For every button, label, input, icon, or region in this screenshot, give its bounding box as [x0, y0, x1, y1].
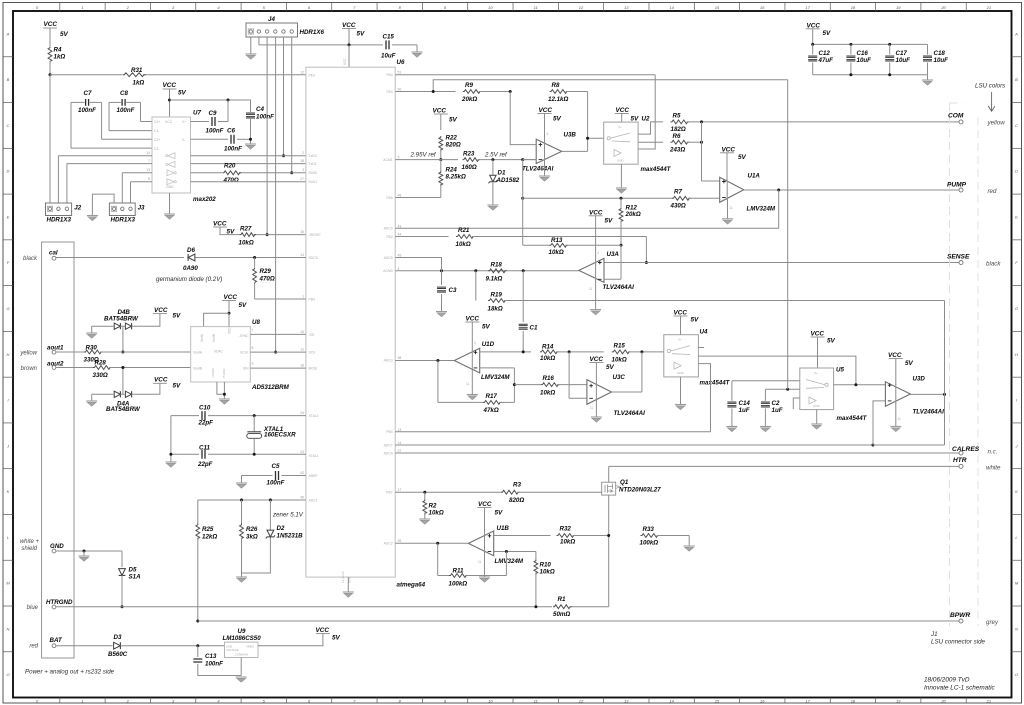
svg-text:U3A: U3A: [607, 251, 620, 258]
svg-text:51: 51: [398, 71, 402, 75]
svg-text:8: 8: [148, 177, 150, 181]
wire ADC1 row: [198, 499, 306, 501]
wire R8 feedback to U3B output: [566, 91, 588, 93]
svg-text:U1A: U1A: [748, 173, 761, 180]
wire PA0 row to U2 control: [395, 74, 655, 76]
wire U2 VCC riser: [621, 114, 623, 123]
svg-text:11: 11: [534, 698, 538, 703]
svg-text:820Ω: 820Ω: [509, 497, 524, 504]
svg-text:R25: R25: [202, 526, 214, 533]
wire D4B left to ground: [92, 325, 115, 327]
svg-text:10: 10: [488, 698, 493, 703]
wire ADC4 row to CALRES: [395, 452, 959, 454]
capacitor C4: [246, 113, 255, 118]
svg-text:D6: D6: [187, 247, 195, 254]
svg-text:C2+: C2+: [154, 138, 160, 142]
svg-text:13: 13: [146, 168, 150, 172]
svg-text:C2-: C2-: [154, 147, 159, 151]
svg-text:5V: 5V: [553, 116, 562, 123]
svg-text:red: red: [988, 188, 998, 195]
svg-text:12: 12: [300, 70, 304, 74]
power VCC U1B: [478, 507, 492, 509]
svg-text:G: G: [6, 306, 9, 311]
connector J2 HDR1X3: [46, 203, 72, 216]
svg-text:max4544T: max4544T: [700, 380, 731, 387]
wire U9 out to VCC: [258, 634, 323, 646]
svg-text:BAT54BRW: BAT54BRW: [104, 316, 139, 323]
wire VCC riser into U6 top: [348, 45, 350, 67]
capacitor C3: [441, 271, 443, 285]
wire U1B V- to ground: [484, 553, 486, 577]
capacitor C18: [927, 44, 929, 54]
wire R12 bottom to R13 row: [620, 221, 622, 246]
svg-text:VCC: VCC: [811, 331, 825, 338]
svg-text:10kΩ: 10kΩ: [540, 390, 555, 397]
svg-text:-SYNC: -SYNC: [239, 334, 250, 338]
wire Q1 source down to R1 row: [608, 495, 610, 607]
wire U8 SCLK to U6 SCK: [250, 351, 306, 353]
svg-text:VrefA: VrefA: [200, 333, 204, 342]
crystal XTAL1 160ECSXR: [253, 416, 255, 432]
resistor R21: [456, 235, 475, 239]
svg-text:R23: R23: [463, 151, 475, 158]
svg-text:11: 11: [300, 348, 304, 352]
svg-text:C: C: [7, 123, 10, 128]
svg-text:PA2: PA2: [387, 235, 393, 239]
svg-text:PB7: PB7: [386, 491, 393, 495]
svg-text:R10: R10: [540, 562, 552, 569]
svg-text:14: 14: [669, 5, 674, 10]
connector J1 dashed outline: [950, 103, 979, 626]
svg-text:R32: R32: [560, 526, 572, 533]
svg-text:19: 19: [896, 698, 901, 703]
power VCC U3B: [538, 113, 552, 115]
wire U1A V- to ground: [727, 199, 729, 219]
svg-text:ADC0: ADC0: [384, 227, 393, 231]
svg-text:11: 11: [898, 417, 902, 421]
svg-text:n.c.: n.c.: [988, 449, 998, 456]
capacitor C15: [386, 40, 389, 49]
resistor R13: [549, 243, 568, 247]
svg-text:HDR1X3: HDR1X3: [111, 217, 136, 224]
svg-text:R21: R21: [458, 227, 470, 234]
svg-text:P GND: P GND: [222, 368, 226, 378]
wire D4A left to ground: [92, 393, 115, 395]
wire R16 row to U3C plus: [514, 384, 541, 386]
svg-text:-SS: -SS: [309, 333, 315, 337]
svg-text:1uF: 1uF: [772, 407, 783, 414]
wire R13 row: [523, 244, 550, 246]
svg-text:10kΩ: 10kΩ: [540, 569, 555, 576]
svg-text:16: 16: [300, 364, 304, 368]
svg-text:100kΩ: 100kΩ: [640, 540, 659, 547]
svg-text:R29: R29: [260, 268, 272, 275]
svg-text:U3C: U3C: [613, 374, 626, 381]
svg-text:AD1582: AD1582: [496, 177, 520, 184]
wire TxD1 row U7 to U6: [67, 163, 152, 165]
ic U6 atmega64 box: [306, 67, 395, 577]
resistor R10: [535, 552, 537, 560]
svg-text:D: D: [1015, 169, 1018, 174]
svg-text:TxD0: TxD0: [309, 154, 317, 158]
wire R25 to BPWR row: [197, 538, 199, 622]
wire D4B right to VCC: [132, 314, 160, 327]
svg-text:16: 16: [300, 230, 304, 234]
wire C8 loop to U7 C1+/C1-: [109, 101, 121, 103]
svg-text:1uF: 1uF: [739, 407, 750, 414]
resistor R15: [612, 350, 631, 354]
op-amp U3A: [579, 258, 604, 282]
svg-text:ADC7: ADC7: [384, 443, 393, 447]
wire R19 branch: [475, 271, 477, 301]
svg-text:VCC: VCC: [316, 627, 330, 634]
svg-text:R19: R19: [491, 292, 503, 299]
wire U3C output up to R15 node: [612, 391, 642, 393]
svg-text:ADC2: ADC2: [384, 541, 393, 545]
wire U1D minus feedback loop R17: [480, 367, 515, 369]
svg-text:12: 12: [579, 698, 584, 703]
svg-text:A: A: [1014, 31, 1018, 36]
svg-text:11: 11: [466, 382, 470, 386]
wire R9 junction down to U3B plus: [510, 92, 536, 145]
capacitor C5 row AREF: [242, 475, 273, 477]
wire 2.5V net to R7 row: [521, 197, 524, 200]
wire U3C minus feedback from R14/R15 node: [568, 352, 570, 398]
svg-text:23: 23: [300, 450, 304, 454]
op-amp U3D: [885, 382, 910, 407]
resistor R30 aout1 row: [56, 351, 84, 353]
svg-text:XTAL1: XTAL1: [309, 454, 319, 458]
svg-text:10kΩ: 10kΩ: [549, 249, 564, 256]
wire U7 VCC rail to C9 C4: [170, 99, 252, 101]
wire U4 output to U3D plus node: [698, 356, 856, 385]
svg-text:11: 11: [534, 5, 538, 10]
wire Q1 drain to HTR row: [608, 466, 610, 482]
svg-text:C1+: C1+: [154, 120, 160, 124]
ic U9 LM1086CS50: [225, 642, 259, 657]
svg-text:42: 42: [300, 471, 304, 475]
ground J4 pin1: [245, 53, 256, 55]
svg-text:SDCS: SDCS: [309, 256, 319, 260]
diode D3 B560C: [114, 642, 121, 649]
svg-text:9.1kΩ: 9.1kΩ: [486, 276, 503, 283]
power VCC D4A: [153, 382, 167, 384]
svg-text:max4544T: max4544T: [837, 415, 868, 422]
svg-text:10kΩ: 10kΩ: [612, 357, 627, 364]
svg-text:VCC: VCC: [163, 82, 177, 89]
svg-text:U8: U8: [252, 319, 260, 326]
svg-text:MOSI: MOSI: [309, 367, 318, 371]
svg-text:U2: U2: [642, 116, 650, 123]
svg-text:HTRGND: HTRGND: [46, 599, 73, 606]
svg-text:VCC: VCC: [343, 58, 347, 65]
wire J4 pin1 to ground: [250, 37, 252, 54]
svg-text:ACM0: ACM0: [383, 269, 393, 273]
svg-text:C14: C14: [739, 400, 751, 407]
svg-text:C2: C2: [772, 400, 780, 407]
wire D4A right to VCC: [132, 383, 160, 394]
wire U2 NO to R5: [638, 122, 663, 134]
svg-text:R3: R3: [513, 482, 521, 489]
svg-text:4: 4: [474, 341, 476, 345]
resistor R16: [541, 383, 560, 387]
resistor R31: [123, 73, 146, 77]
resistor R20: [223, 171, 242, 175]
buffer symbols inside U7: [168, 153, 175, 159]
op-amp U1B: [468, 531, 493, 556]
svg-text:U7: U7: [193, 110, 201, 117]
svg-text:44: 44: [398, 233, 402, 237]
svg-text:black: black: [986, 261, 1001, 268]
svg-text:C17: C17: [896, 50, 908, 57]
svg-text:2: 2: [302, 151, 304, 155]
svg-text:1: 1: [302, 295, 304, 299]
wire U3D minus jog: [873, 401, 885, 445]
svg-text:5V: 5V: [60, 31, 69, 38]
svg-text:H: H: [7, 352, 10, 357]
svg-text:RxD0: RxD0: [309, 171, 318, 175]
wire R4 to junction: [49, 61, 51, 75]
svg-text:B: B: [1015, 77, 1018, 82]
svg-text:14: 14: [398, 441, 402, 445]
wire TxD0 row U7 to U6: [58, 155, 152, 157]
svg-text:10kΩ: 10kΩ: [239, 240, 254, 247]
power VCC U1D: [465, 321, 479, 323]
resistor R6: [671, 140, 690, 144]
svg-text:R9: R9: [465, 82, 473, 89]
wire U4 pin3 to PB4 row: [698, 364, 710, 432]
op-amp U3C: [587, 380, 612, 405]
svg-text:VCC: VCC: [807, 23, 821, 30]
resistor R26: [241, 500, 243, 524]
svg-text:10uF: 10uF: [896, 57, 911, 64]
svg-text:white +: white +: [20, 539, 40, 545]
wire D6 to U6 SDCS pin: [196, 257, 306, 259]
svg-text:R31: R31: [131, 67, 143, 74]
svg-text:21: 21: [986, 5, 991, 10]
svg-text:VCC: VCC: [154, 307, 168, 314]
svg-text:V+: V+: [182, 120, 186, 124]
svg-text:C18: C18: [934, 50, 946, 57]
svg-text:XTAL2: XTAL2: [309, 414, 319, 418]
svg-text:1kΩ: 1kΩ: [133, 79, 145, 86]
resistor R5: [671, 120, 690, 124]
wire U1B output feedback via R11: [437, 543, 439, 575]
diode D4A BAT54BRW pair: [114, 391, 120, 397]
svg-text:10kΩ: 10kΩ: [429, 510, 444, 517]
power VCC U5: [811, 336, 825, 338]
capacitor C16: [850, 44, 852, 54]
svg-text:cal: cal: [49, 250, 58, 257]
resistor R4: [48, 47, 52, 63]
wire J3 pin1 to ground loop: [92, 194, 114, 215]
resistor R12: [620, 198, 622, 207]
svg-text:HDR1X3: HDR1X3: [47, 217, 72, 224]
svg-text:160Ω: 160Ω: [462, 164, 477, 171]
svg-text:TLV2464AI: TLV2464AI: [522, 166, 554, 173]
capacitor C12: [812, 44, 814, 54]
wire ADC3 row to U1D: [395, 360, 454, 362]
svg-text:R4: R4: [54, 47, 62, 54]
svg-text:brown: brown: [21, 366, 38, 372]
diode D5 S1A: [121, 551, 123, 567]
svg-text:5V: 5V: [482, 324, 491, 331]
zener diode D1 AD1582: [492, 160, 494, 175]
wire U5 GND to ground: [816, 410, 818, 424]
wire RxD1 row U7 to U6: [131, 181, 153, 183]
resistor R25: [197, 500, 199, 524]
svg-text:22pF: 22pF: [198, 420, 214, 427]
svg-text:5V: 5V: [495, 510, 504, 517]
svg-text:AREF: AREF: [309, 474, 318, 478]
svg-text:U1D: U1D: [482, 341, 495, 348]
svg-text:COM: COM: [948, 113, 964, 120]
svg-text:VCC: VCC: [342, 22, 356, 29]
svg-text:5V: 5V: [631, 116, 640, 123]
wire U1B minus to R10: [494, 551, 536, 553]
svg-text:5V: 5V: [827, 338, 836, 345]
power VCC U3D: [889, 358, 903, 360]
svg-text:LMV324M: LMV324M: [481, 374, 510, 381]
wire junction down to J2 pin1: [49, 75, 51, 203]
power VCC U8: [222, 300, 236, 302]
svg-text:100nF: 100nF: [78, 107, 96, 114]
wire U2 NC to R6: [638, 141, 663, 143]
svg-text:C7: C7: [84, 90, 92, 97]
svg-text:D2: D2: [277, 525, 285, 532]
resistor R14: [540, 350, 559, 354]
svg-text:1N5231B: 1N5231B: [277, 533, 304, 540]
svg-text:10uF: 10uF: [381, 53, 396, 60]
svg-text:18: 18: [300, 159, 304, 163]
svg-text:22pF: 22pF: [197, 461, 213, 468]
resistor R2: [424, 492, 426, 499]
svg-text:11: 11: [478, 560, 482, 564]
svg-text:12.1kΩ: 12.1kΩ: [548, 96, 568, 103]
svg-text:R27: R27: [240, 226, 252, 233]
svg-text:17: 17: [805, 698, 810, 703]
wire R33 to ground: [688, 536, 690, 547]
svg-text:17: 17: [805, 5, 810, 10]
wire J4 pin3 to -RESET row: [266, 37, 268, 235]
resistor R3: [501, 490, 520, 494]
svg-text:yellow: yellow: [19, 351, 37, 357]
ic U8 AD5312BRM box: [191, 327, 251, 382]
svg-text:atmega64: atmega64: [397, 582, 426, 589]
svg-text:50mΩ: 50mΩ: [553, 611, 570, 618]
svg-text:VrefB: VrefB: [212, 334, 216, 342]
ic U7 max202 box: [152, 117, 191, 193]
wire D2 bottom to R26 leg: [242, 538, 271, 574]
svg-text:shield: shield: [21, 546, 37, 552]
svg-text:C3: C3: [449, 287, 457, 294]
svg-text:10kΩ: 10kΩ: [540, 355, 555, 362]
svg-text:C: C: [1015, 123, 1018, 128]
svg-text:D3: D3: [114, 634, 122, 641]
resistor R33: [641, 534, 660, 538]
resistor R22: [439, 136, 443, 151]
svg-text:E: E: [1015, 214, 1018, 219]
svg-text:182Ω: 182Ω: [671, 126, 686, 133]
svg-text:R1: R1: [558, 596, 566, 603]
resistor R11: [449, 574, 468, 578]
svg-text:15: 15: [715, 698, 720, 703]
wire ADC0 row: [395, 227, 779, 229]
power VCC cap bank: [806, 28, 820, 30]
wire R24 bottom to PA5 row: [440, 184, 442, 198]
svg-text:4: 4: [398, 267, 400, 271]
wire U6 GND pin to ground: [347, 577, 349, 592]
svg-text:max4544T: max4544T: [641, 166, 672, 173]
svg-text:16: 16: [760, 5, 765, 10]
wire C7 loop to U7 C2+/C2-: [71, 101, 84, 103]
wire R21 to U3A plus corner: [472, 236, 646, 238]
svg-text:GND: GND: [166, 185, 174, 189]
power VCC D4B: [153, 313, 167, 315]
svg-text:11: 11: [540, 165, 544, 169]
wire U1B plus row through R32: [494, 535, 551, 537]
svg-text:LMV324M: LMV324M: [495, 558, 524, 565]
svg-text:ADC3: ADC3: [384, 358, 393, 362]
svg-text:18kΩ: 18kΩ: [488, 306, 503, 313]
svg-text:R16: R16: [543, 375, 555, 382]
wire U3D output net up to R19 row: [944, 301, 946, 395]
svg-text:HTR: HTR: [953, 457, 967, 464]
wire R19 row to U3D output net: [504, 300, 945, 302]
svg-text:R33: R33: [643, 526, 655, 533]
svg-text:ADC1: ADC1: [309, 498, 318, 502]
wire U8 -SYNC to U6 -SS: [250, 333, 306, 335]
svg-text:VCC: VCC: [224, 294, 238, 301]
svg-text:R13: R13: [551, 237, 563, 244]
svg-text:21: 21: [986, 698, 991, 703]
resistor R7: [672, 196, 691, 200]
svg-text:10kΩ: 10kΩ: [560, 539, 575, 546]
capacitor C7: [86, 99, 89, 106]
wire R6 to COM net vertical: [687, 141, 702, 143]
svg-text:100nF: 100nF: [267, 480, 285, 487]
svg-text:C9: C9: [209, 110, 217, 117]
svg-text:9: 9: [252, 362, 254, 366]
wire U3B output to U2: [562, 150, 588, 152]
svg-text:430Ω: 430Ω: [670, 203, 686, 210]
svg-text:5V: 5V: [332, 635, 341, 642]
wire HTR row to HTR pin: [609, 465, 959, 467]
svg-text:PA0: PA0: [387, 73, 393, 77]
svg-text:160ECSXR: 160ECSXR: [264, 432, 296, 439]
svg-text:U1B: U1B: [497, 525, 510, 532]
grid column ticks and numbers top/bottom: [59, 3, 61, 12]
svg-text:VCC: VCC: [466, 315, 480, 322]
svg-text:820Ω: 820Ω: [446, 142, 461, 149]
wire U8 gnd pins to ground: [217, 382, 225, 394]
svg-text:13: 13: [624, 698, 629, 703]
svg-text:B560C: B560C: [108, 651, 128, 658]
svg-text:3: 3: [302, 168, 304, 172]
svg-text:LSU connector side: LSU connector side: [931, 639, 986, 646]
svg-text:R6: R6: [673, 133, 681, 140]
wire U3B V+ riser: [544, 114, 546, 144]
svg-text:18: 18: [851, 5, 856, 10]
svg-text:+CSDC: +CSDC: [211, 367, 215, 378]
wire VCC rail to C15: [259, 44, 383, 46]
svg-text:1: 1: [81, 5, 83, 10]
svg-text:R24: R24: [446, 167, 458, 174]
svg-text:10uF: 10uF: [934, 57, 949, 64]
wire R10 to R1 row: [535, 573, 537, 607]
svg-text:R7: R7: [674, 189, 682, 196]
svg-text:VoutB: VoutB: [193, 367, 203, 371]
